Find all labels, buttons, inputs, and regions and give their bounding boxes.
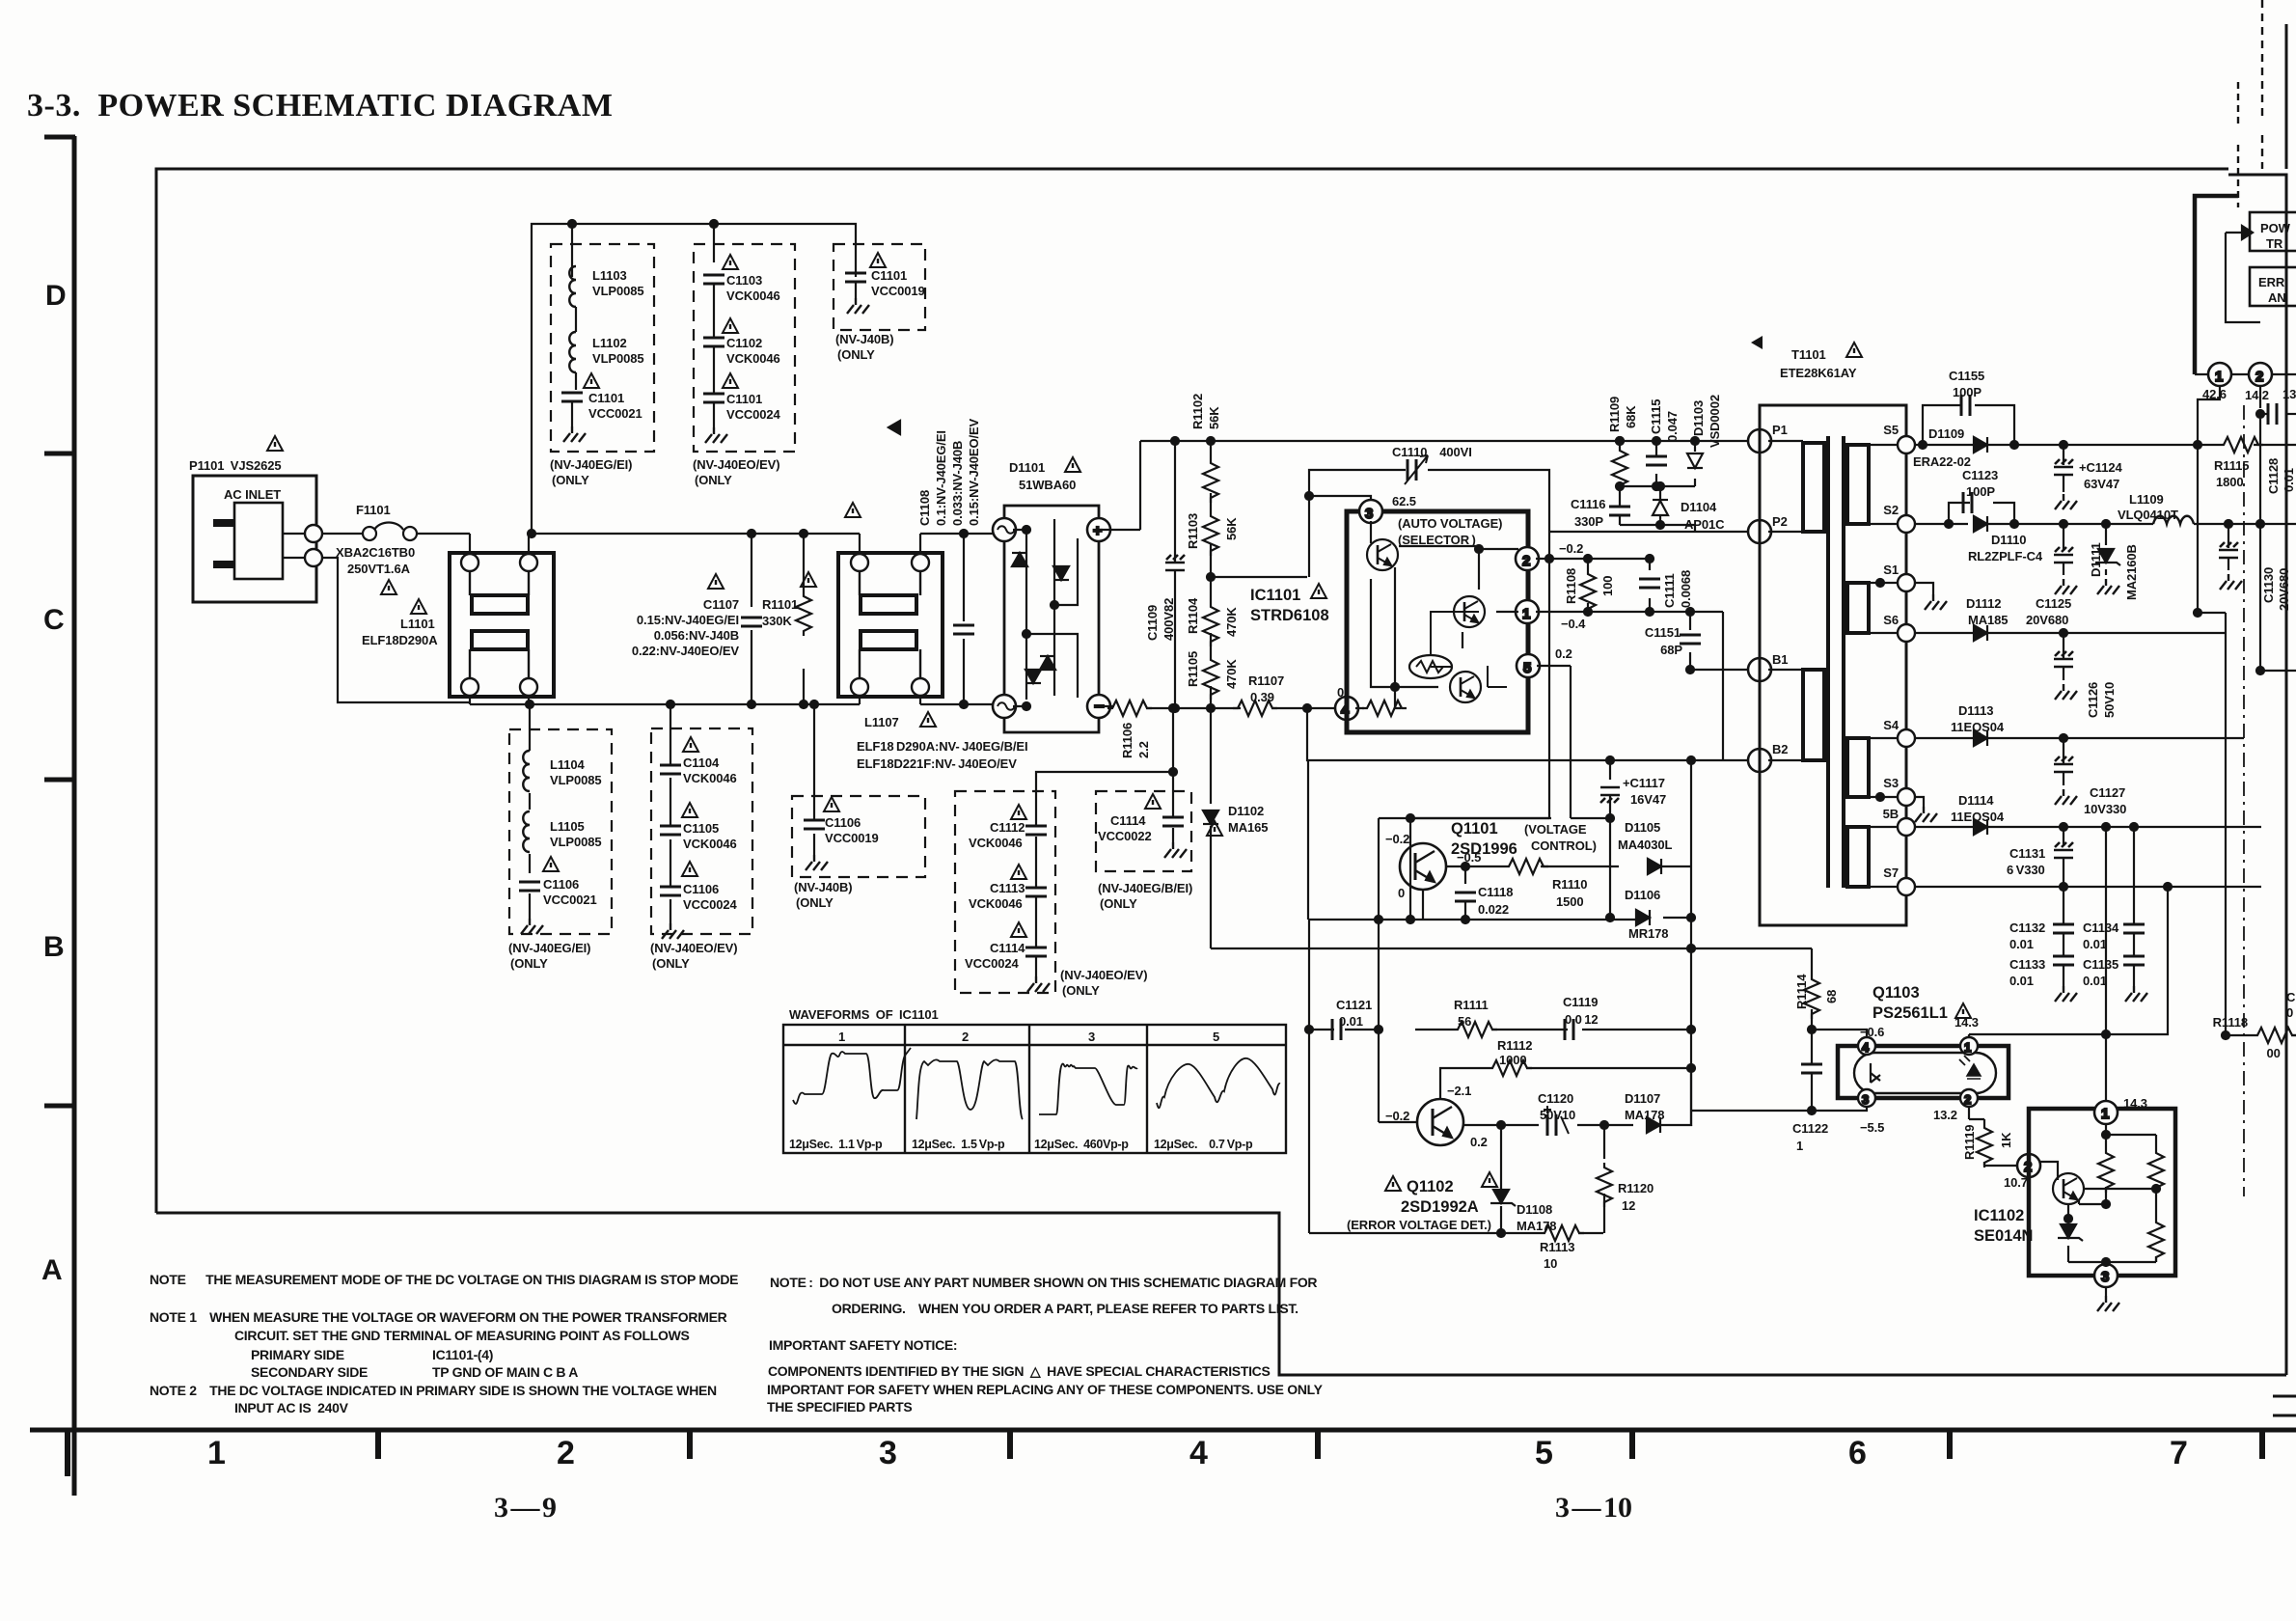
svg-text:12μSec. 1.5 Vp-p: 12μSec. 1.5 Vp-p bbox=[912, 1138, 1005, 1151]
svg-text:C1133: C1133 bbox=[2009, 957, 2045, 972]
svg-text:100P: 100P bbox=[1966, 484, 1995, 499]
svg-text:3 — 10: 3 — 10 bbox=[1555, 1492, 1632, 1524]
svg-text:0.15:NV-J40EG/EI: 0.15:NV-J40EG/EI bbox=[637, 613, 739, 627]
svg-text:D1103: D1103 bbox=[1691, 400, 1706, 436]
svg-text:(NV-J40EG/EI): (NV-J40EG/EI) bbox=[550, 457, 632, 472]
svg-text:2: 2 bbox=[1522, 553, 1530, 569]
svg-text:(VOLTAGE: (VOLTAGE bbox=[1524, 822, 1587, 837]
svg-text:THE SPECIFIED PARTS: THE SPECIFIED PARTS bbox=[767, 1399, 912, 1415]
svg-text:D1102: D1102 bbox=[1228, 804, 1264, 818]
svg-text:0: 0 bbox=[1398, 886, 1405, 900]
svg-text:+C1124: +C1124 bbox=[2079, 460, 2122, 475]
svg-text:1500: 1500 bbox=[1556, 894, 1584, 909]
svg-text:−0.2: −0.2 bbox=[1559, 541, 1583, 556]
svg-text:Q1101: Q1101 bbox=[1451, 820, 1498, 838]
svg-text:(NV-J40EO/EV): (NV-J40EO/EV) bbox=[1060, 968, 1147, 982]
svg-text:C1102: C1102 bbox=[726, 336, 762, 350]
svg-text:R1119: R1119 bbox=[1962, 1125, 1977, 1160]
svg-text:C1128: C1128 bbox=[2266, 458, 2281, 494]
svg-text:1K: 1K bbox=[1999, 1132, 2013, 1148]
svg-text:(NV-J40EG/B/EI): (NV-J40EG/B/EI) bbox=[1098, 881, 1192, 895]
svg-text:0.01: 0.01 bbox=[2083, 974, 2107, 988]
svg-text:250VT1.6A: 250VT1.6A bbox=[347, 562, 411, 576]
svg-text:(ONLY: (ONLY bbox=[1062, 983, 1100, 998]
svg-text:3: 3 bbox=[1365, 506, 1373, 522]
svg-text:C1123: C1123 bbox=[1962, 468, 1998, 482]
svg-text:R1113: R1113 bbox=[1540, 1240, 1574, 1254]
svg-text:MA2160B: MA2160B bbox=[2124, 544, 2139, 600]
svg-text:C1112: C1112 bbox=[990, 820, 1025, 835]
svg-text:+: + bbox=[1093, 523, 1102, 539]
svg-text:5: 5 bbox=[1213, 1030, 1219, 1044]
svg-text:D1112: D1112 bbox=[1966, 596, 2001, 611]
svg-text:VCK0046: VCK0046 bbox=[969, 836, 1023, 850]
svg-text:ERR: ERR bbox=[2258, 275, 2285, 289]
svg-text:VCC0022: VCC0022 bbox=[1098, 829, 1152, 843]
svg-text:(AUTO VOLTAGE): (AUTO VOLTAGE) bbox=[1398, 516, 1502, 531]
svg-text:7: 7 bbox=[2170, 1435, 2188, 1471]
svg-text:2SD1992A: 2SD1992A bbox=[1401, 1198, 1479, 1216]
svg-text:C1110 400VI: C1110 400VI bbox=[1392, 445, 1472, 459]
svg-text:MA165: MA165 bbox=[1228, 820, 1268, 835]
svg-text:(NV-J40EO/EV): (NV-J40EO/EV) bbox=[650, 941, 737, 955]
svg-text:R1106: R1106 bbox=[1120, 723, 1134, 758]
svg-text:R1110: R1110 bbox=[1552, 877, 1587, 892]
svg-text:0.0068: 0.0068 bbox=[1679, 570, 1693, 608]
svg-text:1: 1 bbox=[1522, 606, 1530, 622]
svg-text:ELF18D221F:NV- J40EO/EV: ELF18D221F:NV- J40EO/EV bbox=[857, 756, 1017, 771]
svg-text:IC1102: IC1102 bbox=[1974, 1207, 2024, 1224]
svg-text:13.2: 13.2 bbox=[1933, 1108, 1957, 1122]
svg-text:C1104: C1104 bbox=[683, 756, 720, 770]
svg-text:00: 00 bbox=[2264, 1046, 2281, 1060]
svg-text:13: 13 bbox=[2282, 387, 2296, 401]
svg-text:0.22:NV-J40EO/EV: 0.22:NV-J40EO/EV bbox=[632, 644, 740, 658]
svg-text:VCC0024: VCC0024 bbox=[965, 956, 1020, 971]
svg-text:D1105: D1105 bbox=[1625, 820, 1660, 835]
svg-text:R1111: R1111 bbox=[1454, 998, 1489, 1012]
svg-text:20V680: 20V680 bbox=[2277, 568, 2291, 611]
svg-text:NOTE 2 THE DC VOLTAGE INDICAT: NOTE 2 THE DC VOLTAGE INDICATED IN PRIMA… bbox=[150, 1383, 717, 1398]
svg-text:3: 3 bbox=[879, 1435, 897, 1471]
svg-text:L1103: L1103 bbox=[592, 268, 627, 283]
svg-text:5: 5 bbox=[1535, 1435, 1553, 1471]
svg-text:0: 0 bbox=[1337, 685, 1344, 700]
svg-text:0.2: 0.2 bbox=[1470, 1135, 1488, 1149]
svg-text:C1107: C1107 bbox=[703, 597, 739, 612]
svg-text:C1103: C1103 bbox=[726, 273, 762, 288]
svg-text:−0.2: −0.2 bbox=[1385, 1109, 1409, 1123]
svg-text:4: 4 bbox=[1189, 1435, 1208, 1471]
svg-text:42.6: 42.6 bbox=[2202, 387, 2227, 401]
svg-text:VLP0085: VLP0085 bbox=[550, 773, 602, 787]
svg-text:C1122: C1122 bbox=[1792, 1121, 1828, 1136]
svg-text:MA4030L: MA4030L bbox=[1618, 838, 1673, 852]
svg-text:63V47: 63V47 bbox=[2084, 477, 2119, 491]
svg-text:L1107: L1107 bbox=[864, 715, 899, 729]
svg-text:VLP0085: VLP0085 bbox=[550, 835, 602, 849]
svg-text:11EQS04: 11EQS04 bbox=[1951, 810, 2005, 824]
svg-text:C1135: C1135 bbox=[2083, 957, 2118, 972]
svg-text:D1109: D1109 bbox=[1928, 426, 1964, 441]
svg-text:16V47: 16V47 bbox=[1630, 792, 1666, 807]
svg-text:VCK0046: VCK0046 bbox=[969, 896, 1023, 911]
svg-text:IC1101: IC1101 bbox=[1250, 587, 1300, 604]
svg-text:62.5: 62.5 bbox=[1392, 494, 1416, 508]
svg-text:(NV-J40EO/EV): (NV-J40EO/EV) bbox=[693, 457, 779, 472]
svg-text:R1102: R1102 bbox=[1190, 394, 1205, 429]
svg-text:0.022: 0.022 bbox=[1478, 902, 1509, 917]
svg-text:11EQS04: 11EQS04 bbox=[1951, 720, 2005, 734]
svg-text:VCC0024: VCC0024 bbox=[683, 897, 738, 912]
svg-text:51WBA60: 51WBA60 bbox=[1019, 478, 1076, 492]
svg-text:14.3: 14.3 bbox=[1954, 1015, 1979, 1030]
svg-text:P1: P1 bbox=[1772, 423, 1788, 437]
svg-text:MA178: MA178 bbox=[1625, 1108, 1664, 1122]
svg-text:D1101: D1101 bbox=[1009, 460, 1045, 475]
svg-text:0.01: 0.01 bbox=[2083, 937, 2107, 951]
svg-text:56: 56 bbox=[1458, 1014, 1471, 1029]
svg-text:6: 6 bbox=[1848, 1435, 1867, 1471]
svg-text:VLP0085: VLP0085 bbox=[592, 284, 644, 298]
svg-text:P1101 VJS2625: P1101 VJS2625 bbox=[189, 458, 282, 473]
svg-text:C1114: C1114 bbox=[1110, 813, 1146, 828]
svg-text:IMPORTANT FOR SAFETY WHEN REPL: IMPORTANT FOR SAFETY WHEN REPLACING ANY … bbox=[767, 1382, 1324, 1397]
svg-text:VCC0019: VCC0019 bbox=[871, 284, 925, 298]
svg-text:68: 68 bbox=[1824, 990, 1839, 1003]
svg-text:C1127: C1127 bbox=[2090, 785, 2125, 800]
svg-text:TR: TR bbox=[2266, 236, 2283, 251]
svg-text:MR178: MR178 bbox=[1628, 926, 1668, 941]
svg-text:(NV-J40EG/EI): (NV-J40EG/EI) bbox=[508, 941, 590, 955]
svg-text:0.0 12: 0.0 12 bbox=[1565, 1012, 1599, 1027]
svg-text:T1101: T1101 bbox=[1791, 347, 1826, 362]
svg-text:C1130: C1130 bbox=[2261, 567, 2276, 603]
svg-text:R1105: R1105 bbox=[1186, 651, 1200, 687]
svg-text:VSD0002: VSD0002 bbox=[1708, 395, 1722, 448]
svg-text:50V10: 50V10 bbox=[2102, 682, 2117, 718]
svg-text:+C1117: +C1117 bbox=[1623, 776, 1665, 790]
svg-text:4: 4 bbox=[1341, 702, 1350, 719]
svg-text:R1108: R1108 bbox=[1564, 568, 1578, 604]
svg-text:C1121: C1121 bbox=[1336, 998, 1372, 1012]
svg-text:VCK0046: VCK0046 bbox=[726, 351, 780, 366]
svg-text:C1125: C1125 bbox=[2036, 596, 2071, 611]
svg-text:68P: 68P bbox=[1660, 643, 1682, 657]
svg-text:1: 1 bbox=[207, 1435, 226, 1471]
svg-text:C1120: C1120 bbox=[1538, 1091, 1573, 1106]
svg-text:STRD6108: STRD6108 bbox=[1250, 607, 1329, 624]
svg-text:1800: 1800 bbox=[2216, 475, 2244, 489]
svg-text:6 V330: 6 V330 bbox=[2007, 863, 2045, 877]
svg-text:A: A bbox=[41, 1254, 63, 1286]
svg-text:5: 5 bbox=[1523, 660, 1531, 676]
svg-text:0: 0 bbox=[2286, 1005, 2293, 1020]
svg-text:B2: B2 bbox=[1772, 742, 1788, 756]
svg-text:S5: S5 bbox=[1883, 423, 1899, 437]
svg-text:10: 10 bbox=[1544, 1256, 1557, 1271]
svg-text:B: B bbox=[43, 931, 65, 963]
svg-text:1: 1 bbox=[2101, 1106, 2109, 1122]
svg-text:470K: 470K bbox=[1224, 659, 1239, 689]
svg-text:C1134: C1134 bbox=[2083, 920, 2119, 935]
svg-text:C1113: C1113 bbox=[990, 881, 1025, 895]
svg-text:R1101: R1101 bbox=[762, 597, 798, 612]
svg-text:C1114: C1114 bbox=[990, 941, 1025, 955]
svg-text:R1104: R1104 bbox=[1186, 597, 1200, 634]
svg-text:(ONLY: (ONLY bbox=[796, 895, 834, 910]
svg-text:2: 2 bbox=[2255, 369, 2263, 385]
svg-text:L1102: L1102 bbox=[592, 336, 627, 350]
svg-text:3: 3 bbox=[1088, 1030, 1095, 1044]
svg-text:VCC0021: VCC0021 bbox=[543, 893, 597, 907]
svg-text:RL2ZPLF-C4: RL2ZPLF-C4 bbox=[1968, 549, 2043, 563]
svg-text:MA185: MA185 bbox=[1968, 613, 2008, 627]
svg-text:68K: 68K bbox=[1624, 405, 1638, 428]
svg-text:C1108: C1108 bbox=[917, 490, 932, 526]
svg-text:(NV-J40B): (NV-J40B) bbox=[835, 332, 894, 346]
svg-text:C1115: C1115 bbox=[1649, 399, 1663, 434]
svg-text:PS2561L1: PS2561L1 bbox=[1872, 1004, 1948, 1022]
svg-text:100: 100 bbox=[1600, 576, 1615, 596]
svg-text:SE014N: SE014N bbox=[1974, 1227, 2033, 1245]
svg-text:−5.5: −5.5 bbox=[1860, 1120, 1884, 1135]
svg-text:R1120: R1120 bbox=[1618, 1181, 1654, 1195]
svg-text:(ERROR VOLTAGE DET.): (ERROR VOLTAGE DET.) bbox=[1347, 1218, 1491, 1232]
svg-text:(ONLY: (ONLY bbox=[552, 473, 589, 487]
svg-text:R1114: R1114 bbox=[1794, 974, 1809, 1009]
svg-text:14.3: 14.3 bbox=[2123, 1096, 2147, 1111]
svg-text:R1118: R1118 bbox=[2213, 1015, 2248, 1030]
svg-text:L1104: L1104 bbox=[550, 757, 586, 772]
svg-text:14.2: 14.2 bbox=[2245, 388, 2269, 402]
svg-text:3: 3 bbox=[2101, 1269, 2109, 1285]
svg-text:IMPORTANT SAFETY NOTICE:: IMPORTANT SAFETY NOTICE: bbox=[769, 1337, 957, 1353]
svg-text:L1101: L1101 bbox=[400, 617, 435, 631]
svg-text:CIRCUIT. SET THE GND TERMINAL: CIRCUIT. SET THE GND TERMINAL OF MEASURI… bbox=[234, 1328, 690, 1343]
svg-text:0.047: 0.047 bbox=[1665, 411, 1680, 442]
svg-text:−0.4: −0.4 bbox=[1561, 617, 1586, 631]
svg-text:C1101: C1101 bbox=[588, 391, 624, 405]
svg-text:56K: 56K bbox=[1207, 406, 1221, 429]
svg-text:2: 2 bbox=[1964, 1092, 1971, 1107]
svg-text:VCC0019: VCC0019 bbox=[825, 831, 879, 845]
svg-text:C1101: C1101 bbox=[726, 392, 762, 406]
svg-text:2.2: 2.2 bbox=[1136, 741, 1151, 758]
svg-text:NOTE : DO NOT USE ANY PART NUM: NOTE : DO NOT USE ANY PART NUMBER SHOWN … bbox=[770, 1275, 1317, 1290]
svg-text:12μSec. 460Vp-p: 12μSec. 460Vp-p bbox=[1034, 1138, 1129, 1151]
svg-text:(ONLY: (ONLY bbox=[695, 473, 732, 487]
svg-text:D1104: D1104 bbox=[1681, 500, 1717, 514]
svg-text:S1: S1 bbox=[1883, 563, 1899, 577]
svg-text:C1111: C1111 bbox=[1662, 573, 1677, 608]
svg-text:−0.5: −0.5 bbox=[1457, 850, 1481, 865]
svg-text:CONTROL): CONTROL) bbox=[1531, 838, 1597, 853]
svg-text:100P: 100P bbox=[1953, 385, 1982, 399]
svg-text:WAVEFORMS OF IC1101: WAVEFORMS OF IC1101 bbox=[789, 1007, 939, 1022]
svg-text:330K: 330K bbox=[762, 614, 792, 628]
svg-text:P2: P2 bbox=[1772, 514, 1788, 529]
svg-text:Q1102: Q1102 bbox=[1407, 1178, 1454, 1195]
svg-text:0.2: 0.2 bbox=[1555, 646, 1572, 661]
svg-text:AP01C: AP01C bbox=[1684, 517, 1725, 532]
svg-text:NOTE 1 WHEN MEASURE THE VOLTA: NOTE 1 WHEN MEASURE THE VOLTAGE OR WAVEF… bbox=[150, 1309, 727, 1325]
svg-text:D1107: D1107 bbox=[1625, 1091, 1660, 1106]
svg-text:R1103: R1103 bbox=[1186, 513, 1200, 549]
svg-text:ELF18 D290A:NV- J40EG/B/EI: ELF18 D290A:NV- J40EG/B/EI bbox=[857, 739, 1027, 754]
svg-text:12: 12 bbox=[1622, 1198, 1635, 1213]
svg-text:C1118: C1118 bbox=[1478, 885, 1513, 899]
svg-text:(SELECTOR ): (SELECTOR ) bbox=[1398, 533, 1476, 547]
svg-text:C1131: C1131 bbox=[2009, 846, 2045, 861]
svg-text:NOTE THE MEASUREMENT MODE OF: NOTE THE MEASUREMENT MODE OF THE DC VOLT… bbox=[150, 1272, 738, 1287]
svg-text:VCK0046: VCK0046 bbox=[683, 771, 737, 785]
svg-text:INPUT AC IS 240V: INPUT AC IS 240V bbox=[234, 1400, 349, 1415]
svg-text:C1101: C1101 bbox=[871, 268, 907, 283]
svg-text:(ONLY: (ONLY bbox=[837, 347, 875, 362]
svg-text:0.01: 0.01 bbox=[2009, 937, 2034, 951]
svg-text:10.7: 10.7 bbox=[2004, 1175, 2028, 1190]
svg-text:0.39: 0.39 bbox=[1250, 690, 1274, 704]
svg-text:D1113: D1113 bbox=[1958, 703, 1993, 718]
svg-text:R1107: R1107 bbox=[1248, 673, 1284, 688]
svg-text:0.1:NV-J40EG/EI: 0.1:NV-J40EG/EI bbox=[934, 430, 948, 526]
svg-text:S6: S6 bbox=[1883, 613, 1899, 627]
svg-text:POW: POW bbox=[2260, 221, 2291, 235]
svg-text:SECONDARY SIDE: SECONDARY SIDE bbox=[251, 1364, 368, 1380]
svg-text:1: 1 bbox=[1796, 1139, 1803, 1153]
svg-text:C1106: C1106 bbox=[543, 877, 579, 892]
svg-text:0.056:NV-J40B: 0.056:NV-J40B bbox=[654, 628, 739, 643]
svg-text:3: 3 bbox=[1862, 1092, 1869, 1107]
svg-text:S7: S7 bbox=[1883, 865, 1899, 880]
svg-text:B1: B1 bbox=[1772, 652, 1788, 667]
svg-text:VCK0046: VCK0046 bbox=[683, 837, 737, 851]
svg-text:C1126: C1126 bbox=[2086, 682, 2100, 718]
svg-text:D1110: D1110 bbox=[1991, 533, 2026, 547]
svg-text:D1108: D1108 bbox=[1517, 1202, 1552, 1217]
svg-text:D: D bbox=[45, 280, 67, 312]
svg-text:C1116: C1116 bbox=[1571, 497, 1605, 511]
svg-text:(ONLY: (ONLY bbox=[652, 956, 690, 971]
svg-text:1: 1 bbox=[1964, 1040, 1971, 1055]
svg-text:D1111: D1111 bbox=[2089, 542, 2103, 577]
svg-text:AC INLET: AC INLET bbox=[224, 487, 281, 502]
svg-text:C1155: C1155 bbox=[1949, 369, 1984, 383]
svg-text:10V330: 10V330 bbox=[2084, 802, 2126, 816]
svg-text:12μSec. 1.1 Vp-p: 12μSec. 1.1 Vp-p bbox=[789, 1138, 883, 1151]
svg-text:COMPONENTS IDENTIFIED BY THE S: COMPONENTS IDENTIFIED BY THE SIGN △ HAVE… bbox=[768, 1363, 1271, 1379]
svg-text:C1105: C1105 bbox=[683, 821, 719, 836]
svg-text:S4: S4 bbox=[1883, 718, 1900, 732]
svg-text:D1114: D1114 bbox=[1958, 793, 1994, 808]
svg-text:F1101: F1101 bbox=[356, 503, 391, 517]
svg-text:C: C bbox=[2286, 990, 2296, 1004]
svg-text:3-3. POWER SCHEMATIC DIAGRAM: 3-3. POWER SCHEMATIC DIAGRAM bbox=[27, 88, 613, 124]
svg-text:400V82: 400V82 bbox=[1162, 598, 1176, 641]
svg-text:4: 4 bbox=[1862, 1040, 1870, 1055]
svg-text:56K: 56K bbox=[1224, 517, 1239, 540]
svg-text:AN: AN bbox=[2268, 290, 2286, 305]
svg-text:330P: 330P bbox=[1574, 514, 1603, 529]
svg-text:0.15:NV-J40EO/EV: 0.15:NV-J40EO/EV bbox=[967, 418, 981, 526]
svg-text:R1109: R1109 bbox=[1607, 397, 1622, 432]
svg-text:VLQ0410T: VLQ0410T bbox=[2118, 508, 2178, 522]
svg-text:VCC0021: VCC0021 bbox=[588, 406, 642, 421]
svg-text:1: 1 bbox=[838, 1030, 845, 1044]
svg-text:ERA22-02: ERA22-02 bbox=[1913, 454, 1971, 469]
svg-text:C1119: C1119 bbox=[1563, 995, 1598, 1009]
svg-text:3 — 9: 3 — 9 bbox=[494, 1492, 557, 1524]
svg-text:L1105: L1105 bbox=[550, 819, 585, 834]
svg-text:0.01: 0.01 bbox=[1339, 1014, 1363, 1029]
svg-text:L1109: L1109 bbox=[2129, 492, 2164, 507]
svg-text:−0.6: −0.6 bbox=[1860, 1025, 1884, 1039]
svg-text:ELF18D290A: ELF18D290A bbox=[362, 633, 438, 647]
svg-text:2: 2 bbox=[962, 1030, 969, 1044]
svg-text:C1106: C1106 bbox=[683, 882, 719, 896]
svg-text:0.01: 0.01 bbox=[2009, 974, 2034, 988]
svg-text:R1112: R1112 bbox=[1497, 1038, 1532, 1053]
svg-text:D1106: D1106 bbox=[1625, 888, 1660, 902]
svg-text:−0.2: −0.2 bbox=[1385, 832, 1409, 846]
svg-text:VLP0085: VLP0085 bbox=[592, 351, 644, 366]
svg-text:(ONLY: (ONLY bbox=[510, 956, 548, 971]
svg-text:R1115: R1115 bbox=[2214, 458, 2249, 473]
svg-text:(ONLY: (ONLY bbox=[1100, 896, 1137, 911]
svg-text:XBA2C16TB0: XBA2C16TB0 bbox=[336, 545, 415, 560]
svg-text:1: 1 bbox=[2215, 369, 2223, 385]
svg-text:ETE28K61AY: ETE28K61AY bbox=[1780, 366, 1857, 380]
svg-text:IC1101-(4): IC1101-(4) bbox=[432, 1347, 493, 1362]
svg-text:0.033:NV-J40B: 0.033:NV-J40B bbox=[950, 441, 965, 526]
svg-text:C: C bbox=[43, 604, 65, 636]
svg-text:C1151: C1151 bbox=[1645, 625, 1681, 640]
svg-text:5B: 5B bbox=[1883, 807, 1899, 821]
svg-text:2: 2 bbox=[557, 1435, 575, 1471]
svg-text:0.01: 0.01 bbox=[2282, 468, 2296, 492]
svg-text:TP GND OF MAIN C B A: TP GND OF MAIN C B A bbox=[432, 1364, 578, 1380]
svg-text:PRIMARY SIDE: PRIMARY SIDE bbox=[251, 1347, 344, 1362]
svg-text:S2: S2 bbox=[1883, 503, 1899, 517]
svg-text:VCC0024: VCC0024 bbox=[726, 407, 781, 422]
svg-text:470K: 470K bbox=[1224, 607, 1239, 637]
svg-text:VCK0046: VCK0046 bbox=[726, 288, 780, 303]
svg-text:(NV-J40B): (NV-J40B) bbox=[794, 880, 853, 894]
svg-text:50V10: 50V10 bbox=[1540, 1108, 1575, 1122]
svg-text:C1106: C1106 bbox=[825, 815, 861, 830]
svg-text:12μSec. 0.7 Vp-p: 12μSec. 0.7 Vp-p bbox=[1154, 1138, 1253, 1151]
svg-text:−2.1: −2.1 bbox=[1447, 1084, 1471, 1098]
svg-text:ORDERING. WHEN YOU ORDER A PA: ORDERING. WHEN YOU ORDER A PART, PLEASE … bbox=[832, 1301, 1298, 1316]
svg-text:C1109: C1109 bbox=[1145, 605, 1160, 641]
svg-text:MA178: MA178 bbox=[1517, 1219, 1556, 1233]
svg-text:S3: S3 bbox=[1883, 776, 1899, 790]
svg-text:1000: 1000 bbox=[1499, 1053, 1527, 1067]
svg-text:C1132: C1132 bbox=[2009, 920, 2045, 935]
svg-text:20V680: 20V680 bbox=[2026, 613, 2068, 627]
svg-text:Q1103: Q1103 bbox=[1872, 984, 1920, 1002]
